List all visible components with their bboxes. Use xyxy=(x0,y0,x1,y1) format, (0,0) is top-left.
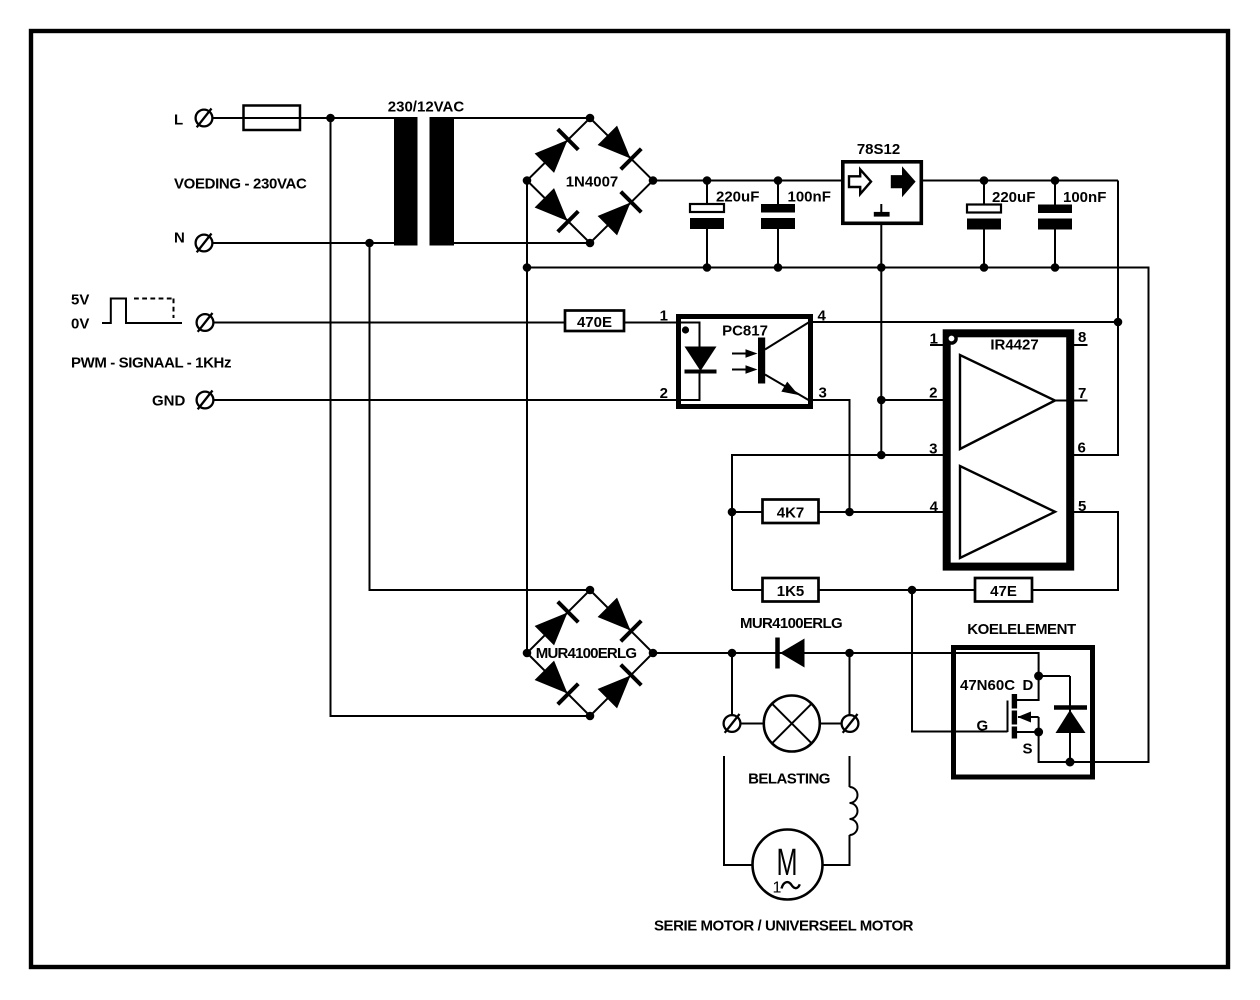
junction dot lamp left xyxy=(728,649,737,658)
MOSFET channel segments xyxy=(1012,694,1017,709)
wire 4K7 left lead xyxy=(732,511,763,513)
svg-text:100nF: 100nF xyxy=(788,189,831,206)
junction dot 4K7 right / PC817 pin3 xyxy=(845,508,854,517)
svg-text:MUR4100ERLG: MUR4100ERLG xyxy=(536,645,637,662)
bridge B2 diode lower-right xyxy=(597,665,641,709)
capacitor C2 100nF xyxy=(761,181,795,268)
svg-text:6: 6 xyxy=(1078,440,1086,457)
svg-text:MUR4100ERLG: MUR4100ERLG xyxy=(740,615,842,632)
terminal PWM xyxy=(197,313,214,332)
svg-text:1N4007: 1N4007 xyxy=(566,174,619,191)
PC817 collector wire xyxy=(765,323,809,350)
wire 470E to PC817 pin 1 xyxy=(624,322,678,324)
wire 1K5 left lead xyxy=(732,589,763,591)
wire regulator ground down xyxy=(880,225,882,455)
svg-text:BELASTING: BELASTING xyxy=(748,771,830,788)
svg-text:47E: 47E xyxy=(990,583,1017,600)
regulator U1 78S12 xyxy=(843,162,922,224)
capacitor C4 100nF xyxy=(1038,181,1072,268)
junction dot gate node xyxy=(908,586,917,595)
junction dot C4 bottom xyxy=(1051,263,1060,272)
PC817 emitter wire xyxy=(765,375,809,401)
wire lamp right down to inductor xyxy=(849,756,851,787)
bridge B1 diode upper-right xyxy=(597,125,641,169)
svg-text:1: 1 xyxy=(930,331,938,348)
svg-text:4K7: 4K7 xyxy=(777,505,805,522)
bridge B1 diode lower-right xyxy=(597,192,641,236)
IR4427 buffer B triangle xyxy=(960,466,1055,558)
bridge rectifier B1 1N4007 xyxy=(523,114,658,248)
node bridge1 right xyxy=(649,176,658,185)
junction dot C2 bottom xyxy=(774,263,783,272)
PC817 LED cathode wire xyxy=(681,374,700,401)
junction dot C3 bottom xyxy=(980,263,989,272)
optocoupler U2 PC817 xyxy=(679,317,811,407)
MOSFET gate bar xyxy=(1007,701,1009,733)
wire PC817 pin 4 to +12V xyxy=(811,321,1119,323)
svg-text:D: D xyxy=(1023,677,1034,694)
diode D5 MUR4100ERLG freewheel xyxy=(778,638,805,669)
wire GND terminal to PC817 pin 2 xyxy=(214,399,679,401)
wire IR4427 pin 3 gnd xyxy=(732,455,949,590)
wire PWM terminal to 470E xyxy=(214,322,566,324)
svg-text:VOEDING - 230VAC: VOEDING - 230VAC xyxy=(174,176,307,193)
svg-text:470E: 470E xyxy=(577,314,612,331)
svg-text:8: 8 xyxy=(1078,329,1086,346)
PC817 LED anode wire xyxy=(681,323,700,348)
junction dot C1 bottom xyxy=(703,263,712,272)
junction dot C4 top xyxy=(1051,176,1060,185)
junction dot gnd / pin 2 xyxy=(877,396,886,405)
regulator input arrow (open) xyxy=(849,169,871,194)
svg-text:47N60C: 47N60C xyxy=(960,677,1015,694)
wire 0V rail xyxy=(527,268,1149,763)
svg-text:78S12: 78S12 xyxy=(857,141,900,158)
wire transformer to bridge1 bottom xyxy=(454,242,590,244)
resistor R3 1K5 xyxy=(763,578,819,602)
IR4427 pin 7 stub xyxy=(1055,400,1088,402)
svg-text:230/12VAC: 230/12VAC xyxy=(388,99,465,116)
node bridge1 top xyxy=(586,114,595,123)
junction dot rail left xyxy=(523,263,532,272)
bridge B2 diode upper-right xyxy=(597,597,641,641)
capacitor C3 220uF xyxy=(967,181,1001,268)
resistor R4 47E xyxy=(975,578,1032,602)
wire inductor to motor xyxy=(823,835,850,865)
terminal L xyxy=(196,109,213,128)
node bridge1 left xyxy=(523,176,532,185)
svg-text:GND: GND xyxy=(152,393,186,410)
bridge B1 diode lower-left xyxy=(534,188,578,232)
junction dot L xyxy=(326,114,335,123)
bridge B2 diode lower-left xyxy=(534,660,578,704)
wire mains L down to motor bridge xyxy=(331,118,591,716)
wire lamp right terminal up xyxy=(849,653,851,715)
junction dot C1 top xyxy=(703,176,712,185)
svg-text:3: 3 xyxy=(819,385,827,402)
regulator ground symbol xyxy=(880,204,882,212)
junction dot +12V / PC817 pin4 xyxy=(1114,318,1123,327)
svg-text:220uF: 220uF xyxy=(992,189,1035,206)
regulator output arrow (solid) xyxy=(892,169,914,194)
wire mains N down to motor bridge xyxy=(370,243,591,590)
svg-text:2: 2 xyxy=(929,385,937,402)
heatsink box KOELELEMENT xyxy=(954,648,1093,778)
wire regulator output +12V xyxy=(923,180,1118,182)
svg-text:G: G xyxy=(977,718,989,735)
terminal GND xyxy=(197,391,214,410)
junction dot N xyxy=(365,239,374,248)
node bridge2 top xyxy=(586,586,595,595)
wire 1K5 to 47E xyxy=(819,589,976,591)
svg-text:3: 3 xyxy=(929,441,937,458)
IR4427 pin 1 stub xyxy=(930,344,943,346)
MOSFET body arrow xyxy=(1018,716,1039,718)
transformer T1 230/12VAC xyxy=(394,117,454,246)
PC817 light arrow 2 xyxy=(732,369,748,371)
terminal lamp right xyxy=(842,714,859,733)
wire PC817 pin 3 down to pin4 node xyxy=(811,400,850,512)
lamp BELASTING xyxy=(740,696,841,752)
wire 4K7 to IR4427 pin 4 xyxy=(819,511,961,513)
svg-text:0V: 0V xyxy=(71,316,89,333)
junction dot 4K7 left xyxy=(728,508,737,517)
wire lamp left terminal up xyxy=(731,653,733,715)
bridge rectifier B2 MUR4100ERLG xyxy=(523,586,658,721)
svg-text:4: 4 xyxy=(930,499,939,516)
junction dot gnd end at pin3 wire xyxy=(877,451,886,460)
wire +12V down to IR4427 pin 6 xyxy=(1072,181,1118,456)
IR4427 buffer A triangle xyxy=(960,355,1055,449)
wire IR4427 pin 2 xyxy=(881,399,960,401)
svg-text:1K5: 1K5 xyxy=(777,583,805,600)
node source dot xyxy=(1034,728,1043,737)
node drain dot xyxy=(1034,672,1043,681)
svg-text:L: L xyxy=(174,112,183,129)
wire transformer to bridge1 top xyxy=(454,117,590,119)
fuse F1 xyxy=(244,106,301,131)
resistor R2 4K7 xyxy=(763,500,819,524)
svg-text:1: 1 xyxy=(660,308,668,325)
svg-text:5: 5 xyxy=(1078,498,1086,515)
bridge B1 diode upper-left xyxy=(534,129,578,173)
MOSFET source lead xyxy=(1017,731,1039,733)
inductor L1 series field winding xyxy=(850,787,858,835)
svg-text:100nF: 100nF xyxy=(1063,189,1106,206)
wire gate drive down to MOSFET gate xyxy=(912,590,1008,732)
wire bridge1 minus down to bridge2 xyxy=(526,181,528,654)
terminal N xyxy=(196,234,213,253)
svg-text:N: N xyxy=(174,230,185,247)
svg-text:2: 2 xyxy=(660,385,668,402)
diode D6 body diode xyxy=(1039,676,1087,762)
svg-text:220uF: 220uF xyxy=(716,189,759,206)
node bridge2 right xyxy=(649,649,658,658)
IR4427 pin1 indicator xyxy=(947,334,956,343)
node source exit dot xyxy=(1066,758,1075,767)
PC817 pin1 marker dot xyxy=(682,326,689,333)
resistor R1 470E xyxy=(565,311,624,332)
svg-text:IR4427: IR4427 xyxy=(990,337,1038,354)
terminal lamp left xyxy=(724,714,741,733)
MOSFET drain lead xyxy=(1017,676,1039,700)
wire drain routing inside heatsink xyxy=(953,653,1039,676)
junction dot lamp right xyxy=(845,649,854,658)
svg-text:PC817: PC817 xyxy=(722,323,768,340)
wire L terminal to transformer xyxy=(213,117,395,119)
wire 47E to IR4427 pin 5 xyxy=(1032,512,1118,590)
svg-text:5V: 5V xyxy=(71,292,89,309)
transistor Q1 47N60C MOSFET xyxy=(1008,676,1096,762)
node bridge1 bottom xyxy=(586,239,595,248)
PC817 LED D1 xyxy=(685,347,717,372)
wire bridge2 plus to heatsink drain xyxy=(653,652,953,654)
driver IC U3 IR4427 xyxy=(930,333,1088,566)
svg-text:S: S xyxy=(1023,741,1033,758)
svg-text:PWM - SIGNAAL - 1KHz: PWM - SIGNAAL - 1KHz xyxy=(71,355,231,372)
svg-text:SERIE MOTOR / UNIVERSEEL MOTOR: SERIE MOTOR / UNIVERSEEL MOTOR xyxy=(654,918,914,935)
junction dot regulator gnd at rail xyxy=(877,263,886,272)
PC817 phototransistor base bar xyxy=(758,338,765,384)
wire N terminal to transformer xyxy=(213,242,395,244)
wire source down xyxy=(1039,732,1095,762)
capacitor C1 220uF xyxy=(690,181,724,268)
svg-text:7: 7 xyxy=(1078,385,1086,402)
svg-text:M: M xyxy=(777,842,798,884)
node bridge2 bottom xyxy=(586,712,595,721)
wire lamp left down to motor xyxy=(724,756,753,865)
IR4427 pin 8 stub xyxy=(1074,344,1088,346)
wire bridge1 plus to regulator input xyxy=(653,180,841,182)
PC817 light arrow 1 xyxy=(732,353,748,355)
motor M1 xyxy=(753,830,823,900)
junction dot C3 top xyxy=(980,176,989,185)
bridge B2 diode upper-left xyxy=(534,602,578,646)
svg-text:KOELELEMENT: KOELELEMENT xyxy=(967,621,1076,638)
node bridge2 left xyxy=(523,649,532,658)
junction dot C2 top xyxy=(774,176,783,185)
svg-text:1: 1 xyxy=(773,879,782,896)
PWM waveform icon xyxy=(102,299,182,324)
